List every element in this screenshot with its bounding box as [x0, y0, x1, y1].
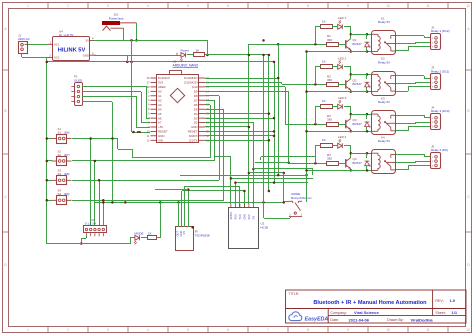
wire 5V drop to nano	[131, 40, 133, 132]
svg-text:RESET: RESET	[158, 130, 168, 134]
wire	[244, 191, 246, 204]
wire coil top	[351, 153, 372, 155]
svg-text:TITLE:: TITLE:	[289, 292, 300, 296]
junction	[268, 112, 271, 115]
wire	[47, 200, 52, 202]
wire	[133, 157, 210, 159]
svg-text:Relay 2 (D11): Relay 2 (D11)	[431, 69, 449, 73]
svg-text:Relay 5V: Relay 5V	[378, 20, 390, 24]
wire	[47, 180, 52, 182]
svg-text:D13/SCK: D13/SCK	[158, 76, 170, 80]
wire	[350, 146, 352, 153]
wire D10	[205, 86, 285, 88]
junction	[305, 90, 308, 93]
svg-text:RXD: RXD	[235, 214, 238, 219]
svg-text:A5: A5	[158, 112, 162, 116]
wire S1 route	[72, 138, 118, 140]
junction	[191, 226, 194, 229]
wire coil top	[351, 34, 372, 36]
wire mode btn bottom	[264, 218, 290, 220]
junction	[305, 169, 308, 172]
wire relay com	[396, 162, 416, 164]
svg-text:330: 330	[327, 78, 332, 82]
svg-text:11: 11	[426, 328, 430, 332]
wire aux h	[155, 189, 188, 191]
transistor Q2 BC547	[345, 80, 347, 88]
wire	[118, 149, 133, 151]
junction	[248, 172, 251, 175]
junction	[130, 61, 133, 64]
wire S4 route	[72, 200, 224, 202]
svg-text:GND: GND	[244, 214, 247, 220]
wire	[350, 74, 352, 79]
junction	[243, 190, 246, 193]
wire 5V to gnd row drop	[207, 40, 209, 55]
wire rail to MODE led	[47, 243, 130, 245]
svg-text:B: B	[4, 109, 6, 113]
svg-text:AC2: AC2	[54, 56, 60, 60]
svg-text:330: 330	[327, 157, 332, 161]
junction	[206, 54, 209, 57]
wire	[424, 78, 430, 80]
junction	[366, 90, 369, 93]
wire bus 269	[268, 55, 270, 191]
svg-text:EN: EN	[253, 216, 256, 220]
wire D4	[205, 113, 269, 115]
wire	[408, 165, 410, 170]
svg-text:RESET: RESET	[188, 130, 198, 134]
svg-text:D9: D9	[194, 90, 198, 94]
nano pin stubs	[151, 77, 158, 79]
wire	[366, 87, 368, 92]
wire	[244, 191, 246, 208]
svg-text:6: 6	[227, 4, 229, 8]
wire	[315, 107, 317, 124]
wire OLED p3	[82, 96, 137, 98]
wire bus 263	[263, 55, 265, 202]
wire	[289, 163, 315, 165]
svg-text:5V: 5V	[86, 39, 90, 43]
junction	[366, 33, 369, 36]
junction	[248, 126, 251, 129]
wire	[350, 153, 352, 158]
wire	[415, 82, 417, 84]
svg-text:D10: D10	[192, 85, 198, 89]
junction	[46, 137, 49, 140]
resistor R2 330	[327, 83, 339, 87]
wire	[285, 87, 287, 124]
svg-text:EasyEDA: EasyEDA	[305, 316, 329, 322]
LED LED 2	[338, 65, 343, 70]
svg-text:B: B	[467, 109, 469, 113]
wire	[315, 26, 321, 28]
svg-text:3: 3	[107, 328, 109, 332]
wire relay nc	[396, 169, 408, 171]
wire gnd rail right	[204, 54, 269, 56]
resistor 1K ch4	[321, 144, 333, 148]
wire D12	[205, 78, 278, 80]
svg-text:9: 9	[347, 4, 349, 8]
svg-text:11: 11	[426, 4, 430, 8]
junction	[350, 50, 353, 53]
svg-text:Company:: Company:	[330, 311, 346, 315]
wire	[315, 44, 326, 46]
wire	[47, 160, 52, 162]
wire tsop out	[178, 202, 180, 227]
wire	[160, 202, 162, 238]
wire S2 route	[72, 160, 215, 162]
svg-text:12: 12	[466, 328, 470, 332]
svg-text:ARDUINO_NANO: ARDUINO_NANO	[173, 64, 199, 68]
wire	[416, 161, 430, 163]
wire	[282, 84, 315, 86]
wire OLED p1 to A4	[82, 86, 146, 88]
wire rx row	[205, 135, 274, 137]
wire	[288, 91, 290, 163]
junction	[268, 139, 271, 142]
svg-text:1: 1	[27, 328, 29, 332]
wire	[205, 95, 219, 97]
wire	[132, 132, 150, 134]
wire	[130, 238, 132, 244]
wire S3 route	[72, 180, 219, 182]
wire	[136, 96, 138, 128]
svg-text:Relay 5V: Relay 5V	[378, 100, 390, 104]
wire	[235, 182, 308, 184]
svg-text:220V AC: 220V AC	[18, 37, 31, 41]
svg-text:4: 4	[147, 328, 149, 332]
wire	[141, 122, 150, 124]
svg-text:S1: S1	[58, 130, 62, 134]
wire	[117, 138, 119, 149]
wire	[223, 109, 225, 200]
LED LED 1	[338, 24, 343, 29]
svg-text:STATE: STATE	[230, 211, 233, 219]
junction	[366, 169, 369, 172]
wire	[408, 46, 430, 48]
wire	[210, 105, 212, 158]
junction	[366, 130, 369, 133]
junction	[230, 177, 233, 180]
resistor 1K ch2	[321, 65, 333, 69]
wire	[415, 161, 417, 162]
junction	[305, 174, 308, 177]
svg-text:1.0: 1.0	[450, 298, 456, 303]
junction	[305, 50, 308, 53]
junction	[252, 168, 255, 171]
junction	[234, 181, 237, 184]
wire	[366, 127, 368, 131]
svg-text:7: 7	[267, 328, 269, 332]
svg-text:GND: GND	[191, 125, 197, 129]
junction	[89, 137, 92, 140]
wire	[137, 127, 150, 129]
svg-text:D3: D3	[194, 116, 198, 120]
junction	[350, 169, 353, 172]
svg-text:D8: D8	[194, 94, 198, 98]
wire mid line 175	[180, 175, 306, 177]
wire	[284, 201, 289, 203]
svg-text:OLED: OLED	[74, 78, 83, 82]
svg-text:1K: 1K	[322, 138, 326, 142]
wire	[350, 90, 352, 92]
wire	[47, 138, 52, 140]
svg-text:7: 7	[267, 4, 269, 8]
wire	[350, 34, 352, 39]
wire	[278, 44, 280, 175]
svg-text:MODE: MODE	[135, 232, 144, 236]
svg-text:D0/RX: D0/RX	[189, 134, 198, 138]
wire	[416, 122, 430, 124]
wire	[350, 27, 352, 34]
wire bus 274	[274, 62, 276, 183]
wire	[215, 156, 231, 158]
wire J1 pin2 down	[21, 53, 23, 57]
junction	[350, 130, 353, 133]
wire hc05 state	[230, 178, 232, 204]
wire	[278, 44, 315, 46]
wire relay com	[396, 123, 416, 125]
wire	[263, 202, 265, 218]
junction	[273, 61, 276, 64]
svg-text:PowerJack: PowerJack	[109, 17, 124, 21]
wire	[214, 100, 216, 161]
svg-text:D4: D4	[194, 112, 198, 116]
wire OLED p2 to A5	[82, 91, 141, 93]
junction	[262, 54, 265, 57]
svg-text:LED 2: LED 2	[338, 56, 347, 60]
svg-text:BC547: BC547	[353, 82, 363, 86]
wire tx row	[205, 140, 269, 142]
svg-text:2: 2	[67, 328, 69, 332]
wire	[182, 190, 244, 192]
resistor 1K ch3	[321, 105, 333, 109]
wire hc05 en	[253, 122, 255, 204]
svg-text:D1/TX: D1/TX	[189, 139, 197, 143]
svg-text:3V3: 3V3	[158, 81, 164, 85]
wire	[408, 126, 410, 131]
wire	[416, 42, 430, 44]
wire	[408, 87, 410, 91]
svg-text:Sheet:: Sheet:	[435, 311, 445, 315]
svg-text:REV:: REV:	[435, 299, 443, 303]
wire emitter rail	[306, 131, 372, 133]
wire	[141, 92, 143, 123]
svg-text:A3: A3	[158, 103, 162, 107]
wire	[366, 153, 368, 158]
junction	[124, 201, 127, 204]
wire	[366, 47, 368, 52]
svg-text:A1: A1	[158, 94, 162, 98]
wire tsop gnd	[181, 191, 183, 227]
svg-text:BC547: BC547	[353, 42, 363, 46]
junction	[135, 39, 138, 42]
bluetooth module U2 HC05	[229, 208, 259, 249]
wire	[281, 82, 283, 84]
junction	[126, 61, 129, 64]
wire gnd drop	[127, 55, 129, 62]
wire	[285, 124, 315, 126]
wire	[408, 165, 430, 167]
svg-text:1K: 1K	[322, 59, 326, 63]
svg-text:VCC: VCC	[248, 214, 251, 219]
junction	[94, 160, 97, 163]
wire	[350, 50, 352, 52]
wire	[253, 168, 313, 170]
svg-text:D7: D7	[194, 99, 198, 103]
svg-text:5: 5	[187, 4, 189, 8]
transistor Q4 BC547	[345, 159, 347, 167]
wire	[22, 57, 47, 59]
junction	[273, 181, 276, 184]
wire to header	[103, 200, 105, 226]
wire	[205, 104, 210, 106]
wire	[424, 76, 426, 78]
wire	[315, 163, 326, 165]
svg-text:HILINK 5V: HILINK 5V	[58, 48, 86, 54]
wire	[338, 44, 345, 46]
wire hc05 rxd	[235, 183, 237, 204]
wire	[338, 84, 345, 86]
junction	[268, 54, 271, 57]
wire relay com	[396, 43, 416, 45]
wire	[184, 186, 240, 188]
wire	[332, 66, 338, 68]
wire tsop vs	[184, 187, 186, 227]
wire	[344, 145, 351, 147]
svg-text:2021-04-06: 2021-04-06	[349, 317, 370, 322]
svg-text:Drawn By:: Drawn By:	[387, 318, 404, 322]
wire	[141, 237, 147, 239]
junction	[277, 77, 280, 80]
wire	[350, 67, 352, 74]
wire gnd rail left	[94, 55, 177, 57]
junction	[277, 43, 280, 46]
svg-text:TXD: TXD	[239, 214, 242, 219]
wire	[219, 96, 221, 180]
svg-text:LED 3: LED 3	[338, 96, 347, 100]
svg-text:D6: D6	[194, 103, 198, 107]
wire	[205, 109, 224, 111]
svg-text:10: 10	[386, 4, 390, 8]
junction	[273, 130, 276, 133]
junction	[314, 123, 317, 126]
wire	[260, 157, 262, 160]
LED LED 3	[338, 104, 343, 109]
svg-text:Relay 4 (D9): Relay 4 (D9)	[431, 148, 448, 152]
junction	[314, 83, 317, 86]
junction	[248, 54, 251, 57]
junction	[366, 152, 369, 155]
wire 5V rail	[94, 40, 207, 42]
wire relay nc	[396, 130, 408, 132]
svg-text:D11/MOSI: D11/MOSI	[184, 81, 197, 85]
wire	[344, 106, 351, 108]
svg-text:2: 2	[67, 4, 69, 8]
svg-text:BC547: BC547	[353, 122, 363, 126]
svg-text:12: 12	[466, 4, 470, 8]
junction	[350, 113, 353, 116]
wire	[338, 163, 345, 165]
wire tsop aux	[188, 190, 190, 227]
wire mode btn top	[283, 173, 285, 202]
svg-text:3: 3	[107, 4, 109, 8]
svg-text:GND: GND	[158, 134, 164, 138]
svg-text:A7: A7	[158, 121, 162, 125]
junction	[273, 135, 276, 138]
wire	[344, 26, 351, 28]
wire	[146, 118, 150, 120]
svg-text:8: 8	[307, 4, 309, 8]
wire ch4 led feed	[261, 156, 315, 158]
svg-text:9: 9	[347, 328, 349, 332]
regulator module U4 HILINK 5V	[53, 37, 90, 61]
connector J1 220V AC	[19, 42, 28, 54]
junction	[366, 73, 369, 76]
svg-text:ViralDodhia: ViralDodhia	[411, 317, 434, 322]
wire	[315, 124, 326, 126]
svg-text:D12/MISO: D12/MISO	[184, 76, 198, 80]
svg-text:Bluetooth + IR + Manual Home A: Bluetooth + IR + Manual Home Automation	[313, 300, 427, 306]
wire	[424, 36, 426, 38]
wire OLED p4 gnd	[82, 101, 112, 103]
wire emitter bus	[306, 52, 308, 202]
wire relay no	[396, 154, 424, 156]
svg-text:5: 5	[187, 328, 189, 332]
wire	[424, 37, 430, 39]
junction	[98, 179, 101, 182]
wire	[350, 169, 352, 170]
wire	[408, 86, 430, 88]
svg-text:6: 6	[227, 328, 229, 332]
wire stub 230	[230, 156, 232, 178]
wire relay nc	[396, 91, 408, 93]
svg-text:Date:: Date:	[330, 318, 339, 322]
junction	[159, 201, 162, 204]
junction	[262, 201, 265, 204]
wire	[344, 66, 351, 68]
junction	[283, 172, 286, 175]
svg-text:LED 4: LED 4	[338, 135, 347, 139]
wire	[350, 114, 352, 118]
LED LED 4	[338, 143, 343, 148]
svg-text:1K: 1K	[322, 19, 326, 23]
wire reset row	[205, 131, 274, 133]
wire	[315, 106, 321, 108]
wire jack 5V drop	[136, 23, 138, 40]
junction	[314, 43, 317, 46]
resistor R1 330	[327, 43, 339, 47]
svg-text:Relay 5V: Relay 5V	[378, 139, 390, 143]
svg-text:VS: VS	[182, 231, 186, 235]
wire D11	[205, 82, 282, 84]
wire	[366, 34, 368, 39]
wire	[315, 27, 317, 44]
wire	[315, 67, 317, 84]
svg-text:+5V: +5V	[158, 125, 163, 129]
junction	[277, 174, 280, 177]
junction	[187, 188, 190, 191]
wire emitter rail	[306, 51, 372, 53]
svg-text:Relay 1 (D12): Relay 1 (D12)	[431, 29, 450, 33]
junction	[46, 199, 49, 202]
wire	[408, 46, 410, 51]
resistor R3 330	[327, 123, 339, 127]
wire	[424, 154, 426, 157]
wire	[415, 42, 417, 44]
junction	[130, 39, 133, 42]
wire	[231, 178, 313, 180]
